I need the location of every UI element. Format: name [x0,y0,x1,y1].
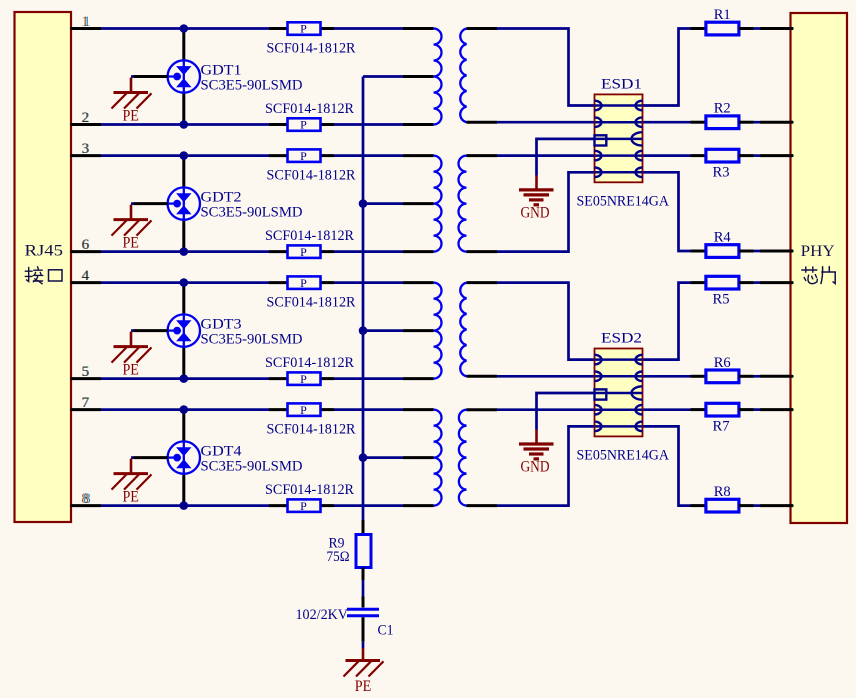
pin number 1 [81,14,91,30]
svg-text:P: P [300,372,307,386]
capacitor C1 102/2KV [347,597,379,642]
wire RJ45 pin 1 row [101,27,269,30]
svg-text:GDT2: GDT2 [201,190,242,206]
junction dot GDT1 top [180,24,189,33]
RJ45 pin 3 stub [71,154,102,157]
transformer T1 secondary winding [460,29,466,123]
junction dot GDT3 top [180,278,189,287]
transformer primary pin (row 4) [403,281,434,284]
resistor R9 75ohm [356,520,371,580]
transformer T3 center tap wire [363,329,434,332]
svg-text:P: P [300,22,307,36]
wire T2 secondary top through ESD1 row 4 [467,154,691,157]
pin number 7 [81,395,90,411]
svg-text:P: P [300,118,307,132]
svg-text:SCF014-1812R: SCF014-1812R [267,41,356,57]
RJ45 pin 4 stub [71,281,102,284]
svg-text:PE: PE [122,362,139,379]
svg-text:P: P [300,276,307,290]
center-tap bus wire [362,77,365,521]
svg-text:SC3E5-90LSMD: SC3E5-90LSMD [201,77,303,93]
junction dot GDT2 bottom [180,247,189,256]
transformer T2 center tap wire [363,202,434,205]
wire T3 secondary top to ESD2 pin row 1 [467,283,597,360]
ESD2 internal pin lines [595,360,643,427]
GDT4 left pin to PE [131,456,168,459]
PE earth symbol at GDT3 [112,332,152,379]
wire T4 secondary bottom to ESD2 pin row 5 [467,426,597,505]
resistor R7 [691,403,794,416]
svg-text:75Ω: 75Ω [327,549,350,565]
junction dot GDT4 top [180,405,189,414]
wire RJ45 pin 8 row [101,504,269,507]
svg-text:4: 4 [82,268,90,284]
transformer T2 secondary winding [459,156,467,252]
svg-text:R5: R5 [713,292,730,308]
svg-text:3: 3 [82,141,90,157]
wire T1 secondary top to ESD1 pin row 1 [467,29,597,106]
svg-text:R3: R3 [713,165,730,181]
svg-text:GND: GND [521,459,550,476]
transformer primary pin (row 2) [403,123,434,126]
PE earth symbol at GDT4 [112,459,152,506]
wire ESD1 row5 to R4 [641,172,691,251]
fuse P7 SCF014-1812R [269,403,334,417]
svg-text:R4: R4 [714,230,731,246]
transformer T1 primary winding [434,29,442,125]
RJ45 pin 2 stub [71,123,102,126]
svg-text:6: 6 [82,237,90,253]
svg-text:SCF014-1812R: SCF014-1812R [265,101,354,117]
fuse P2 SCF014-1812R [269,118,334,132]
GDT tube GDT3 symbol [168,314,200,346]
wire RJ45 pin 5 row [101,377,269,380]
wire T3 secondary bottom through ESD2 row 2 [467,375,691,378]
wire RJ45 pin 6 row [101,250,269,253]
svg-text:GDT4: GDT4 [201,444,243,460]
wire RJ45 pin 2 row [101,123,269,126]
pin number 8 [81,491,91,507]
wire R9 to C1 [362,580,365,597]
wire ESD1 row3 to GND [537,139,595,176]
svg-text:SCF014-1812R: SCF014-1812R [265,482,354,498]
svg-text:PE: PE [122,489,139,506]
wire ESD1 row1 to R1 [641,29,691,106]
GDT tube GDT1 vertical pins [182,29,185,125]
svg-text:PHY: PHY [801,243,835,260]
svg-text:7: 7 [82,395,90,411]
wire T1 secondary bottom through ESD1 row 2 [467,121,691,124]
svg-text:8: 8 [83,491,91,507]
svg-text:SCF014-1812R: SCF014-1812R [267,168,356,184]
svg-text:ESD1: ESD1 [601,77,642,93]
svg-text:SCF014-1812R: SCF014-1812R [265,355,354,371]
PHY chip box [791,13,848,523]
PE earth symbol at GDT1 [112,78,152,125]
resistor R1 [691,22,794,35]
svg-text:1: 1 [83,14,91,30]
svg-text:P: P [300,149,307,163]
RJ45 pin 5 stub [71,377,102,380]
svg-text:PE: PE [122,108,139,125]
svg-text:R6: R6 [714,355,731,371]
fuse P8 SCF014-1812R [269,499,334,513]
transformer T4 secondary winding [459,410,467,506]
GND power symbol 2 [519,430,554,476]
PHY Chinese label 芯片 (chip) [802,267,818,284]
RJ45 connector box [15,12,72,522]
svg-text:SCF014-1812R: SCF014-1812R [267,295,356,311]
junction dot GDT3 bottom [180,374,189,383]
PE earth symbol at GDT2 [112,205,152,252]
GDT tube GDT2 symbol [168,187,200,219]
transformer T4 center tap wire [363,456,434,459]
transformer primary pin (row 7) [403,408,434,411]
GDT tube GDT3 vertical pins [182,283,185,379]
wire ESD2 row3 to GND [537,393,595,430]
resistor R4 [691,245,794,258]
svg-text:R8: R8 [714,484,731,500]
transformer primary pin (row 6) [403,250,434,253]
RJ45 pin 8 stub [71,504,102,507]
GDT tube GDT1 symbol [168,60,200,92]
junction dot GDT2 top [180,151,189,160]
ESD suppressor ESD2 body [595,349,643,437]
ESD1 internal pin lines [595,106,643,173]
pin number 2 [81,110,89,126]
svg-text:102/2KV: 102/2KV [296,607,349,623]
wire RJ45 pin 7 row [101,408,269,411]
transformer primary pin (row 1) [403,27,434,30]
svg-text:P: P [300,245,307,259]
transformer T1 center tap wire [363,75,434,78]
svg-text:R7: R7 [713,419,730,435]
svg-text:P: P [300,403,307,417]
svg-text:SE05NRE14GA: SE05NRE14GA [577,194,670,210]
svg-text:R1: R1 [714,7,731,23]
svg-text:SCF014-1812R: SCF014-1812R [267,422,356,438]
svg-text:GDT1: GDT1 [201,63,242,79]
ESD1 pin arcs [595,101,643,177]
resistor R2 [691,116,794,129]
RJ45 pin 7 stub [71,408,102,411]
wire ESD2 row5 to R8 [641,426,691,505]
svg-text:SC3E5-90LSMD: SC3E5-90LSMD [201,332,303,348]
svg-text:SC3E5-90LSMD: SC3E5-90LSMD [201,459,303,475]
resistor R5 [691,276,794,289]
fuse P4 SCF014-1812R [269,245,334,259]
wire ESD2 row1 to R5 [641,283,691,360]
resistor R6 [691,370,794,383]
transformer primary pin (row 3) [403,154,434,157]
svg-text:PE: PE [122,235,139,252]
svg-text:GND: GND [521,205,550,222]
resistor R8 [691,499,794,512]
svg-text:GDT3: GDT3 [201,317,242,333]
resistor R3 [691,149,794,162]
junction dot GDT1 bottom [180,120,189,129]
GDT tube GDT2 vertical pins [182,156,185,252]
GDT tube GDT4 vertical pins [182,410,185,506]
svg-text:P: P [300,499,307,513]
transformer primary pin (row 8) [403,504,434,507]
wire T4 secondary top through ESD2 row 4 [467,408,691,411]
transformer T4 primary winding [434,410,442,506]
svg-text:5: 5 [82,364,90,380]
junction dot GDT4 bottom [180,501,189,510]
pin number 5 [81,364,89,380]
wire C1 to PE [362,642,365,649]
fuse P3 SCF014-1812R [269,149,334,163]
svg-text:ESD2: ESD2 [601,331,642,347]
svg-text:SE05NRE14GA: SE05NRE14GA [577,448,670,464]
RJ45 Chinese label 接口 (interface) [25,267,43,284]
fuse P5 SCF014-1812R [269,276,334,290]
RJ45 pin 1 stub [71,27,102,30]
svg-text:RJ45: RJ45 [25,243,64,260]
wire RJ45 pin 3 row [101,154,269,157]
GDT tube GDT4 symbol [168,441,200,473]
RJ45 pin 6 stub [71,250,102,253]
transformer T3 primary winding [434,283,442,379]
svg-text:C1: C1 [378,623,394,639]
svg-text:PE: PE [355,678,372,695]
transformer primary pin (row 5) [403,377,434,380]
transformer T3 secondary winding [460,283,466,377]
ESD suppressor ESD1 body [595,94,643,182]
GDT1 left pin to PE [131,75,168,78]
svg-text:SC3E5-90LSMD: SC3E5-90LSMD [201,205,303,221]
transformer T2 primary winding [434,156,442,252]
ESD2 pin arcs [595,355,643,431]
wire T2 secondary bottom to ESD1 pin row 5 [467,172,597,251]
fuse P6 SCF014-1812R [269,372,334,386]
svg-text:R2: R2 [714,101,731,117]
GDT3 left pin to PE [131,329,168,332]
PE earth symbol bottom [344,648,384,695]
pin number 3 [81,141,89,157]
GND power symbol 1 [519,175,554,221]
svg-text:SCF014-1812R: SCF014-1812R [265,228,354,244]
GDT2 left pin to PE [131,202,168,205]
fuse P1 SCF014-1812R [269,22,334,36]
junction dot tap T3 [359,326,368,335]
wire RJ45 pin 4 row [101,281,269,284]
svg-text:2: 2 [82,110,90,126]
pin number 4 [81,268,90,284]
junction dot tap T2 [359,199,368,208]
pin number 6 [81,237,90,253]
junction dot tap T4 [359,453,368,462]
